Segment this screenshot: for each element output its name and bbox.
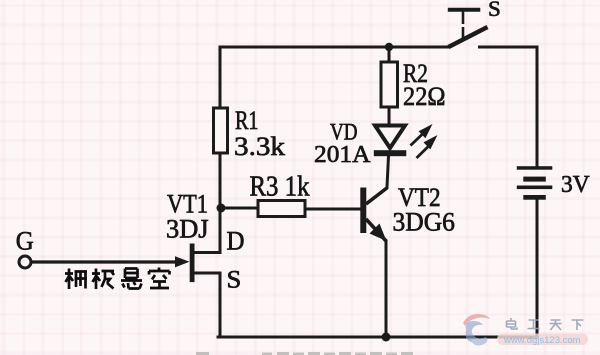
watermark url pill xyxy=(497,334,588,347)
char xuan (hang) xyxy=(121,269,142,289)
char tian xyxy=(550,320,562,330)
transistor VT2 xyxy=(360,188,387,242)
svg-text:3.3k: 3.3k xyxy=(234,132,285,161)
svg-text:201A: 201A xyxy=(314,142,371,168)
resistor R3 xyxy=(258,201,305,217)
svg-text:R1: R1 xyxy=(235,106,259,135)
resistor R2 xyxy=(381,62,398,107)
svg-text:D: D xyxy=(227,226,245,255)
wire top horizontal xyxy=(220,46,449,49)
LED VD xyxy=(374,126,407,157)
watermark logo (red/blue swirl) xyxy=(463,314,490,346)
wire source lead xyxy=(194,272,220,275)
resistor R1 xyxy=(214,108,228,153)
node dot top (R2 branch) xyxy=(385,43,393,51)
wire left rail lower xyxy=(219,273,222,337)
caption fragment (cut off at bottom edge) xyxy=(196,352,413,355)
terminal G xyxy=(19,256,31,268)
battery 3V xyxy=(517,166,553,200)
wire R3 left xyxy=(221,207,258,210)
char ji (pole) xyxy=(92,269,114,290)
wire left rail mid xyxy=(219,153,222,251)
wire base lead xyxy=(305,208,360,211)
char dian xyxy=(507,318,518,329)
wire left rail upper xyxy=(219,47,222,108)
wire bottom horizontal xyxy=(218,336,537,339)
svg-text:www.dgjs123.com: www.dgjs123.com xyxy=(503,335,581,346)
svg-text:S: S xyxy=(227,266,242,293)
wire emitter down xyxy=(385,241,388,337)
watermark text dian gong tian xia xyxy=(507,318,584,330)
svg-text:3DJ: 3DJ xyxy=(166,215,209,244)
transistor VT1 (FET) xyxy=(31,244,195,283)
svg-text:R3 1k: R3 1k xyxy=(250,172,310,203)
svg-text:3DG6: 3DG6 xyxy=(393,208,455,237)
wire right rail lower xyxy=(536,200,539,337)
switch S xyxy=(448,10,488,47)
wire drain lead xyxy=(194,251,220,254)
svg-text:VD: VD xyxy=(330,120,358,145)
node dot R3/R1 junction xyxy=(217,204,226,213)
wire LED to collector xyxy=(387,156,389,187)
node dot bottom (emitter) xyxy=(382,333,391,342)
LED light arrow 2 xyxy=(417,135,438,158)
char kong (empty) xyxy=(149,268,170,289)
label gate-floating (Chinese: shan ji xuan kong) drawn as paths xyxy=(65,268,170,290)
svg-text:S: S xyxy=(488,0,501,21)
LED light arrow 1 xyxy=(411,124,433,146)
svg-text:22Ω: 22Ω xyxy=(403,82,446,111)
wire R2 to LED xyxy=(388,107,391,125)
char xia xyxy=(572,320,584,330)
char shan (grid) xyxy=(65,269,87,290)
wire right rail upper xyxy=(480,47,538,165)
char gong xyxy=(528,320,540,329)
svg-text:3V: 3V xyxy=(561,172,590,198)
wire R2 branch top xyxy=(388,47,391,62)
svg-text:G: G xyxy=(16,226,34,255)
